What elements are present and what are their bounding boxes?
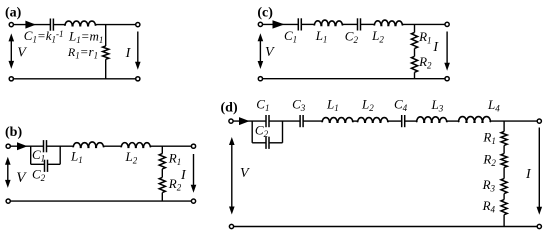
svg-text:(d): (d) [221, 101, 238, 116]
svg-text:L4: L4 [487, 97, 500, 114]
svg-text:C4: C4 [394, 97, 408, 114]
svg-text:C2: C2 [345, 29, 359, 46]
svg-text:V: V [240, 166, 250, 181]
svg-text:C2: C2 [32, 167, 46, 184]
svg-text:I: I [125, 46, 132, 61]
svg-text:C3: C3 [292, 97, 306, 114]
svg-text:L3: L3 [431, 97, 444, 114]
svg-text:R1=r1: R1=r1 [67, 44, 98, 61]
svg-text:V: V [17, 45, 27, 60]
svg-text:R2: R2 [482, 151, 496, 168]
svg-text:R2: R2 [418, 54, 432, 71]
svg-text:I: I [432, 40, 439, 55]
svg-text:C1: C1 [284, 28, 297, 45]
svg-text:L2: L2 [125, 149, 138, 166]
svg-text:R2: R2 [168, 176, 182, 193]
svg-text:(c): (c) [257, 6, 273, 21]
svg-text:L1=m1: L1=m1 [68, 28, 103, 45]
svg-text:L2: L2 [361, 97, 374, 114]
svg-text:L2: L2 [371, 28, 384, 45]
svg-text:L1: L1 [315, 28, 328, 45]
svg-text:(b): (b) [5, 125, 22, 140]
svg-text:R1: R1 [482, 129, 495, 146]
svg-text:R1: R1 [168, 151, 181, 168]
svg-text:R1: R1 [418, 29, 431, 46]
svg-text:R4: R4 [482, 198, 496, 215]
svg-text:I: I [180, 168, 187, 183]
svg-text:I: I [525, 167, 532, 182]
svg-text:C1: C1 [256, 97, 269, 114]
svg-text:L1: L1 [326, 97, 339, 114]
svg-text:R3: R3 [482, 177, 496, 194]
svg-text:(a): (a) [5, 5, 22, 20]
svg-text:V: V [265, 45, 275, 60]
svg-text:C1=k1-1: C1=k1-1 [24, 28, 64, 45]
svg-text:L1: L1 [70, 149, 83, 166]
svg-text:V: V [16, 170, 27, 186]
